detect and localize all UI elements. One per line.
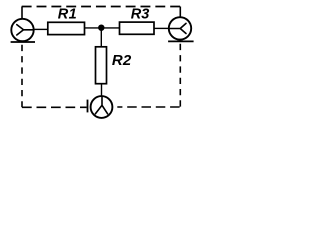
svg-text:R1: R1 (58, 7, 78, 23)
svg-text:R2: R2 (112, 52, 132, 69)
svg-text:R3: R3 (131, 7, 150, 23)
